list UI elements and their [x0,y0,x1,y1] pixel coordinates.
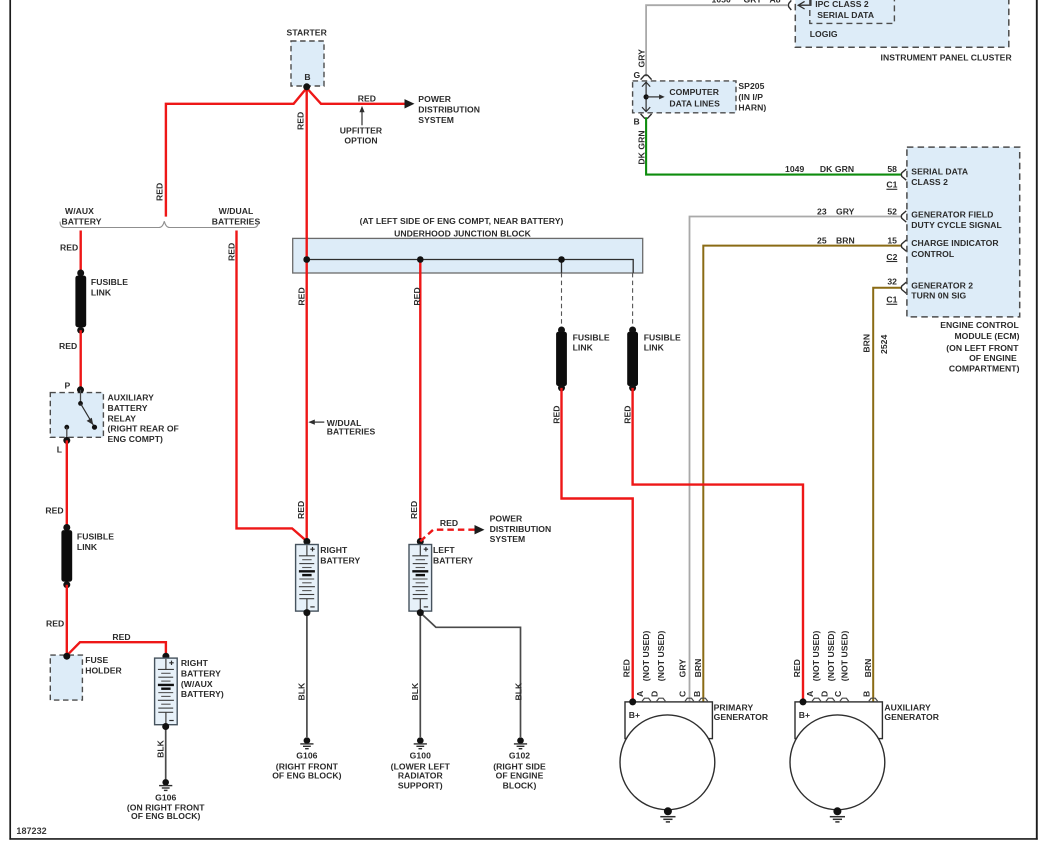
svg-text:DISTRIBUTION: DISTRIBUTION [418,105,480,115]
svg-text:OF ENG BLOCK): OF ENG BLOCK) [272,770,341,780]
svg-text:(NOT USED): (NOT USED) [811,630,821,681]
label W/AUX BATTERY [62,206,102,226]
wire RED starter branch left [166,88,307,217]
svg-text:G102: G102 [509,751,530,761]
option brace [60,221,258,227]
svg-text:W/AUX: W/AUX [65,206,94,216]
arrow w/dual batteries pointing at starter wire [308,420,324,425]
svg-text:GRY: GRY [636,49,646,68]
wire BRN 2524 from ECM pin 32 to auxiliary generator pin B [873,288,901,702]
label POWER DISTRIBUTION SYSTEM (lower) [490,514,552,545]
junction block nodes [303,256,310,263]
pin 58 / C1 [886,164,897,189]
ECM connector arc pin 15 [901,240,906,251]
ground G106 (right front of eng block) [300,737,313,748]
label SP205 (IN I/P HARN) [738,81,766,113]
ground G100 (lower left radiator support) [414,737,427,748]
svg-text:OF ENGINE: OF ENGINE [969,353,1017,363]
svg-text:RED: RED [226,243,236,261]
svg-text:187232: 187232 [16,826,46,836]
fusible link F3 [556,332,567,386]
svg-text:BLK: BLK [296,682,306,701]
svg-text:BLK: BLK [155,739,165,758]
wire RED w/aux branch down to fusible link [79,231,81,274]
auxiliary generator pin bumps A D C B [812,698,878,701]
node at starter pin B [303,83,310,90]
svg-text:RED: RED [622,659,632,677]
svg-text:LEFT: LEFT [433,545,455,555]
svg-text:RED: RED [409,501,419,519]
node at F4 bottom [629,384,636,391]
svg-text:(ON LEFT FRONT: (ON LEFT FRONT [946,343,1019,353]
svg-text:BATTERY: BATTERY [181,668,221,678]
wire RED junction block to left battery [419,260,421,542]
ground G102 (right side of engine block) [514,737,527,748]
primary generator pin bumps A D C B [642,698,708,701]
node [77,327,84,334]
fusible link F1 (w/aux battery) [75,276,86,328]
svg-text:G106: G106 [155,792,176,802]
svg-text:RED: RED [296,112,306,130]
arrow to power distribution system [405,99,415,108]
svg-text:COMPARTMENT): COMPARTMENT) [949,364,1020,374]
svg-text:RED: RED [296,501,306,519]
svg-text:BLOCK): BLOCK) [503,780,537,790]
svg-text:(RIGHT REAR OF: (RIGHT REAR OF [108,424,179,434]
svg-text:SUPPORT): SUPPORT) [398,780,443,790]
wire DK GRN from splice to ECM pin 58 [646,117,901,174]
label W/DUAL BATTERIES (mid) [327,418,376,437]
upfitter option arrow [359,106,364,125]
connector at IPC pin A8 [788,0,791,10]
svg-text:BRN: BRN [836,235,855,245]
dashed lead junction block to fusible link F3 [561,273,563,328]
pin 32 / C1 [886,277,897,305]
svg-text:RED: RED [112,632,130,642]
svg-text:GENERATOR 2: GENERATOR 2 [911,280,973,290]
label AUXILIARY GENERATOR [884,702,939,722]
svg-text:A: A [805,691,815,697]
svg-text:L: L [57,445,62,455]
svg-text:(NOT USED): (NOT USED) [641,630,651,681]
svg-text:RADIATOR: RADIATOR [398,770,444,780]
svg-text:1049: 1049 [785,164,804,174]
wire GRY generator field from ECM pin 52 to primary generator pin C [690,217,901,702]
svg-text:LOGIG: LOGIG [810,29,838,39]
label FUSIBLE LINK [573,332,610,352]
svg-text:SERIAL DATA: SERIAL DATA [911,167,968,177]
wire RED starter branch right to power distribution [307,88,406,104]
auxiliary generator [790,702,885,810]
wire RED fusible link F2 to fuse holder and right battery (w/aux) [67,585,166,656]
svg-text:BATTERY: BATTERY [433,555,473,565]
wire RED starter main crossing junction block [306,238,308,275]
node [63,524,70,531]
node at F4 top [629,327,636,334]
svg-text:32: 32 [887,277,897,287]
relay internals: pivot, arm, contact [63,386,97,444]
svg-text:RED: RED [792,659,802,677]
dashed lead junction block to fusible link F4 [632,273,634,328]
node at primary generator B+ [629,698,636,705]
svg-text:FUSIBLE: FUSIBLE [91,277,128,287]
svg-text:GENERATOR FIELD: GENERATOR FIELD [911,209,993,219]
wire BLK w/aux battery to G106 [165,727,167,780]
svg-text:15: 15 [887,235,897,245]
svg-text:RED: RED [622,406,632,424]
svg-text:(NOT USED): (NOT USED) [826,630,836,681]
svg-text:2524: 2524 [879,335,889,354]
IPC CLASS 2 SERIAL DATA inner box [810,0,895,23]
svg-text:UPFITTER: UPFITTER [340,126,383,136]
svg-text:BLK: BLK [513,682,523,701]
svg-text:RED: RED [551,406,561,424]
svg-text:CONTROL: CONTROL [911,249,954,259]
svg-text:(AT LEFT SIDE OF ENG COMPT, NE: (AT LEFT SIDE OF ENG COMPT, NEAR BATTERY… [360,216,564,226]
svg-text:25: 25 [817,235,827,245]
svg-text:B: B [304,72,310,82]
svg-text:G106: G106 [296,751,317,761]
primary generator wire labels (vertical) [622,630,703,681]
svg-text:LINK: LINK [91,287,112,297]
label FUSIBLE LINK [91,277,128,297]
svg-text:D: D [819,691,829,697]
wire label 1050 GRY A8 (cut off at top) [712,0,781,5]
splice internal arrows [642,82,665,112]
label POWER DISTRIBUTION SYSTEM (upper) [418,94,480,125]
splice connector arc (top, G side) [641,75,652,80]
label FUSIBLE LINK [77,532,114,552]
auxiliary generator pin letters [805,691,872,697]
node at F3 bottom [558,384,565,391]
svg-text:(W/AUX: (W/AUX [181,679,213,689]
node [63,581,70,588]
svg-text:DATA LINES: DATA LINES [669,98,720,108]
wire RED starter main down to right battery [306,86,308,541]
svg-text:STARTER: STARTER [287,27,328,37]
svg-text:BATTERY: BATTERY [320,555,360,565]
label 25 BRN [817,235,855,245]
svg-text:AUXILIARY: AUXILIARY [108,393,155,403]
svg-text:TURN 0N SIG: TURN 0N SIG [911,290,966,300]
svg-text:BRN: BRN [693,659,703,678]
wire RED dashed to power distribution (lower) [420,530,475,542]
svg-text:RIGHT: RIGHT [181,658,209,668]
label FUSE HOLDER [85,655,122,675]
ground G106 (on right front of eng block) [159,779,172,790]
svg-text:C1: C1 [886,180,897,190]
svg-text:GENERATOR: GENERATOR [714,712,769,722]
svg-text:LINK: LINK [77,542,98,552]
svg-text:1050: 1050 [712,0,731,5]
svg-text:RIGHT: RIGHT [320,545,348,555]
ECM pin function labels [911,167,1001,301]
auxiliary generator wire labels (vertical) [792,630,873,681]
svg-text:DUTY CYCLE SIGNAL: DUTY CYCLE SIGNAL [911,220,1001,230]
svg-text:LINK: LINK [573,343,594,353]
label FUSIBLE LINK [644,332,681,352]
svg-text:G: G [634,70,641,80]
wire RED w/aux to right battery (w/aux) top [162,653,169,660]
svg-text:BATTERY): BATTERY) [181,689,224,699]
svg-text:BATTERIES: BATTERIES [212,216,261,226]
label 23 GRY [817,206,855,216]
wire RED F4 to auxiliary generator B+ [633,388,803,700]
auxiliary battery relay box [50,393,103,438]
svg-text:RED: RED [59,341,77,351]
svg-text:W/DUAL: W/DUAL [219,206,254,216]
svg-text:SP205: SP205 [738,81,764,91]
left battery [409,545,432,612]
svg-text:LINK: LINK [644,343,665,353]
junction block internal bus wire [307,260,634,273]
svg-text:B: B [634,117,640,127]
svg-text:POWER: POWER [418,94,451,104]
svg-text:BATTERY: BATTERY [108,403,148,413]
svg-text:HARN): HARN) [738,103,766,113]
svg-text:BATTERIES: BATTERIES [327,427,376,437]
fusible link F4 [627,332,638,386]
svg-text:SERIAL DATA: SERIAL DATA [817,10,874,20]
label RIGHT BATTERY [320,545,360,565]
wire RED relay L to fusible link F2 [66,440,68,527]
svg-text:RED: RED [45,506,63,516]
svg-text:58: 58 [887,164,897,174]
svg-text:DK GRN: DK GRN [636,130,646,164]
svg-text:GRY: GRY [678,659,688,678]
svg-text:OF ENG BLOCK): OF ENG BLOCK) [131,811,200,821]
svg-text:UNDERHOOD JUNCTION BLOCK: UNDERHOOD JUNCTION BLOCK [394,229,532,239]
label AUXILIARY BATTERY RELAY (RIGHT REAR OF ENG COMPT) [108,393,179,444]
svg-text:B: B [692,691,702,697]
svg-text:AUXILIARY: AUXILIARY [884,702,931,712]
svg-text:FUSIBLE: FUSIBLE [573,332,610,342]
svg-text:C: C [677,691,687,697]
wire BLK right battery to G106 [306,613,308,737]
svg-text:23: 23 [817,206,827,216]
ECM engine control module box [907,147,1020,317]
instrument panel cluster box [795,0,1009,47]
label RIGHT BATTERY (W/AUX BATTERY) [181,658,224,699]
underhood junction block box [293,238,643,273]
svg-text:BATTERY: BATTERY [62,216,102,226]
svg-text:GRY: GRY [744,0,763,5]
wire RED w/dual branch (brace to left battery) [237,231,307,542]
svg-text:CLASS 2: CLASS 2 [911,177,948,187]
ground at primary generator [660,807,675,822]
svg-text:IPC CLASS 2: IPC CLASS 2 [815,0,869,9]
label W/DUAL BATTERIES [212,206,261,226]
svg-text:ENGINE CONTROL: ENGINE CONTROL [940,320,1019,330]
svg-text:A: A [635,691,645,697]
ground at auxiliary generator [830,807,845,822]
svg-text:RED: RED [297,287,307,305]
starter box [291,41,324,86]
svg-text:BRN: BRN [863,659,873,678]
svg-text:HOLDER: HOLDER [85,666,122,676]
ECM connector arc pin 58 [901,169,906,180]
svg-text:BRN: BRN [862,334,872,353]
label ENGINE CONTROL MODULE (ECM) location [940,320,1019,373]
svg-text:FUSE: FUSE [85,655,108,665]
right battery [296,545,319,612]
wire BLK left battery branch to G102 [420,613,520,737]
wire RED F3 to primary generator B+ [562,388,633,700]
junction block stub to fusible link dashed column [561,260,563,273]
node [77,270,84,277]
wire GRY from splice SP205 up and over to IPC [646,5,787,76]
svg-text:DK GRN: DK GRN [820,164,854,174]
svg-text:RED: RED [412,287,422,305]
wire BLK left battery to G100 [419,613,421,737]
svg-text:C2: C2 [886,252,897,262]
svg-text:DISTRIBUTION: DISTRIBUTION [490,524,552,534]
node at left battery + [417,538,424,545]
svg-text:CHARGE INDICATOR: CHARGE INDICATOR [911,238,999,248]
node at auxiliary generator B+ [800,698,807,705]
node at F3 top [558,327,565,334]
node at right battery + [303,538,310,545]
svg-text:MODULE (ECM): MODULE (ECM) [954,331,1019,341]
svg-text:RED: RED [358,93,376,103]
svg-text:ENG COMPT): ENG COMPT) [108,434,163,444]
svg-text:B: B [862,691,872,697]
label PRIMARY GENERATOR [714,702,769,722]
splice SP205 COMPUTER DATA LINES box [633,81,736,113]
label COMPUTER DATA LINES [669,87,720,108]
svg-text:(NOT USED): (NOT USED) [840,630,850,681]
svg-text:(IN I/P: (IN I/P [738,92,763,102]
label 1049 DK GRN [785,164,854,174]
svg-text:RED: RED [440,518,458,528]
svg-text:C1: C1 [886,295,897,305]
fusible link F2 [61,530,72,582]
svg-text:FUSIBLE: FUSIBLE [644,332,681,342]
svg-text:POWER: POWER [490,514,523,524]
svg-text:INSTRUMENT PANEL CLUSTER: INSTRUMENT PANEL CLUSTER [881,53,1013,63]
fuse holder box [50,655,82,700]
svg-text:OF ENGINE: OF ENGINE [496,770,544,780]
svg-text:SYSTEM: SYSTEM [490,534,526,544]
svg-text:A8: A8 [770,0,781,5]
svg-text:C: C [833,691,843,697]
label UPFITTER OPTION [340,126,383,146]
wire RED fusible link to relay pin P [79,330,81,389]
svg-text:(NOT USED): (NOT USED) [656,630,666,681]
svg-text:P: P [65,381,71,391]
svg-text:G100: G100 [410,751,431,761]
svg-text:52: 52 [887,206,897,216]
svg-text:PRIMARY: PRIMARY [714,702,754,712]
ECM connector arc pin 32 [901,282,906,293]
svg-text:D: D [649,691,659,697]
ECM connector arc pin 52 [901,211,906,222]
primary generator [620,702,715,810]
svg-text:OPTION: OPTION [344,136,377,146]
svg-text:BLK: BLK [410,682,420,701]
arrow to power distribution system (lower) [475,525,485,534]
splice connector arc (bottom, B side) [641,114,652,119]
svg-text:SYSTEM: SYSTEM [418,115,454,125]
label LEFT BATTERY [433,545,473,565]
IPC internal arrow into logic [798,0,811,9]
svg-text:RED: RED [155,183,165,201]
node at fuse holder [63,653,70,660]
pin 15 / C2 [886,235,897,261]
svg-text:GENERATOR: GENERATOR [884,712,939,722]
svg-text:RED: RED [60,242,78,252]
svg-text:COMPUTER: COMPUTER [669,87,719,97]
svg-text:RELAY: RELAY [108,413,137,423]
svg-text:GRY: GRY [836,206,855,216]
wire BRN charge indicator from ECM pin 15 to primary generator pin B [703,246,901,702]
svg-text:FUSIBLE: FUSIBLE [77,532,114,542]
primary generator pin letters [635,691,702,697]
svg-text:RED: RED [46,619,64,629]
right battery (w/aux battery) [155,658,178,725]
